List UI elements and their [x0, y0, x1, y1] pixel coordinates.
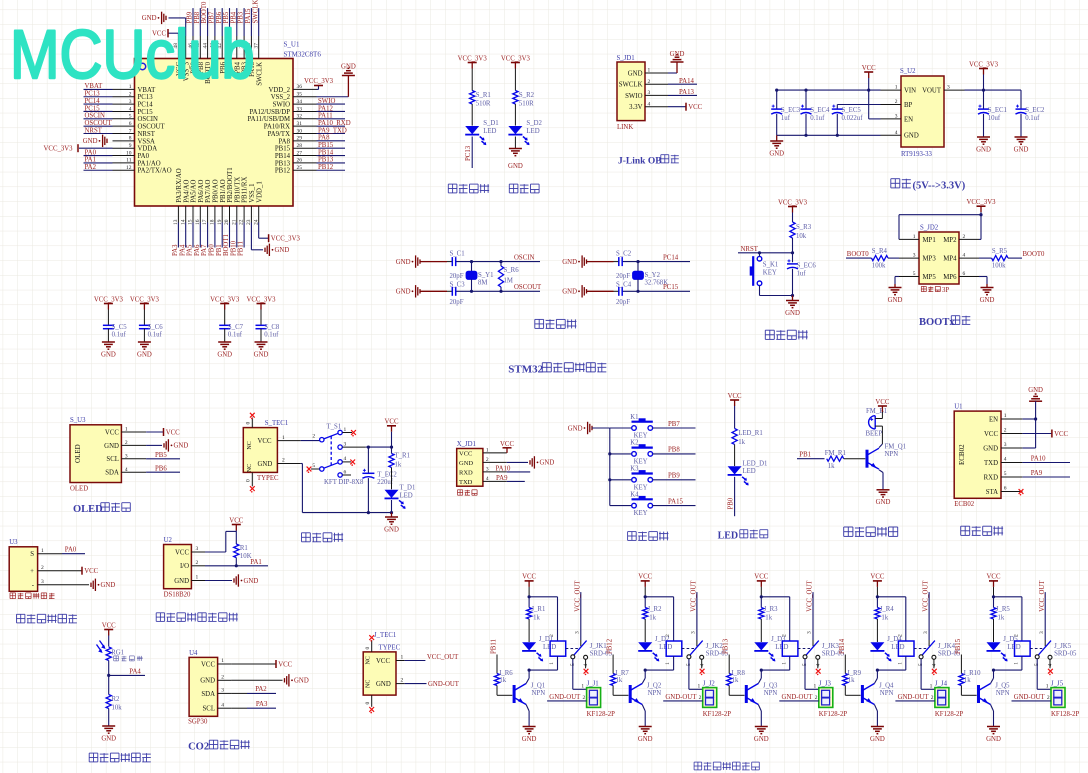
- node PA4: [109, 668, 145, 675]
- svg-text:GND: GND: [904, 133, 919, 140]
- svg-text:J_R3: J_R3: [764, 606, 779, 613]
- power VCC at U3 pin2: [62, 567, 99, 575]
- U1 top pin 45 PB8: [194, 8, 205, 74]
- S_JD1 pin 3 SWIO: [625, 90, 668, 100]
- svg-text:BOOT0: BOOT0: [1023, 251, 1046, 258]
- svg-text:J_J3: J_J3: [819, 681, 832, 688]
- svg-text:VCC: VCC: [728, 393, 742, 400]
- svg-text:11: 11: [126, 158, 132, 164]
- svg-text:33: 33: [297, 106, 303, 112]
- wire coil bottom J_JK5: [992, 656, 1022, 672]
- S_JD1 pin 1 GND: [628, 68, 668, 78]
- svg-text:VDDA: VDDA: [138, 146, 158, 153]
- wire VCC node to coil J_JK5: [992, 595, 1022, 641]
- svg-text:20pF: 20pF: [450, 299, 464, 306]
- svg-text:1: 1: [697, 683, 700, 689]
- U1 right pin 25 PB12: [275, 164, 345, 175]
- svg-text:4: 4: [699, 664, 705, 667]
- ground J_Q2: [638, 727, 653, 743]
- svg-text:GND: GND: [754, 736, 769, 743]
- power VCC_3V3 at U1 pin36 VDD_2: [304, 78, 334, 90]
- svg-text:1k: 1k: [964, 677, 971, 684]
- svg-text:J_JK1: J_JK1: [590, 643, 607, 650]
- svg-text:KEY: KEY: [763, 269, 777, 276]
- wire emitter to ground: [879, 470, 883, 490]
- svg-text:PC14: PC14: [663, 255, 679, 262]
- svg-text:PB5: PB5: [155, 452, 167, 459]
- wire bottom rail PC15: [587, 290, 691, 293]
- svg-text:PB0/AO: PB0/AO: [213, 179, 220, 203]
- power VCC at S_JD1 pin4: [668, 103, 703, 111]
- wire J_R2 to J_D2: [644, 619, 646, 642]
- svg-text:2: 2: [931, 695, 934, 701]
- svg-text:PA9: PA9: [496, 475, 508, 482]
- title J-Link OB interface: [618, 155, 679, 167]
- svg-text:1k: 1k: [533, 615, 540, 622]
- svg-text:1k: 1k: [395, 461, 402, 468]
- ground below S_C7: [217, 342, 232, 358]
- power VCC at U1 pin48: [152, 29, 178, 38]
- ground J_Q4: [870, 727, 885, 743]
- wire T_S1 pin6 stub: [342, 474, 351, 476]
- svg-text:VCC: VCC: [459, 450, 472, 457]
- svg-text:GND: GND: [986, 736, 1001, 743]
- LED T_D1: [385, 468, 416, 509]
- U1 bottom pin 17 PA7/AO: [201, 180, 212, 256]
- svg-text:PA4/AO: PA4/AO: [183, 180, 190, 203]
- svg-text:VCC_OUT: VCC_OUT: [574, 580, 581, 612]
- svg-text:0.1uf: 0.1uf: [810, 115, 825, 122]
- svg-text:PC13: PC13: [138, 94, 154, 101]
- S_U2 pin BP: [881, 99, 913, 109]
- svg-text:PB0: PB0: [209, 244, 216, 256]
- power VCC relay J_JK1: [522, 574, 536, 597]
- connector S_JD1 J-Link: [617, 55, 646, 131]
- S_U3 pin 1 VCC: [105, 427, 146, 437]
- svg-text:PB10/TX: PB10/TX: [234, 177, 241, 203]
- resistor J_R1 1k: [527, 597, 546, 622]
- U1 bottom pin 14 PA4/AO: [179, 180, 190, 256]
- svg-text:PA8: PA8: [318, 135, 330, 142]
- resistor S_R2 510R: [513, 69, 535, 108]
- svg-text:VCC: VCC: [175, 549, 189, 556]
- U1 right pin 30 PA9/TX: [268, 127, 347, 138]
- svg-text:J_JK3: J_JK3: [822, 643, 840, 650]
- svg-text:3: 3: [221, 688, 224, 694]
- svg-text:X_JD1: X_JD1: [457, 441, 476, 448]
- wire relay NC contact J_JK1: [584, 659, 589, 675]
- switch S_K1 KEY: [750, 253, 779, 296]
- U1 right pin 36 VDD_2: [268, 84, 316, 94]
- wire J_R3 to J_D3: [760, 619, 762, 642]
- svg-text:510R: 510R: [476, 101, 491, 108]
- node GND-OUT J_J1: [547, 694, 587, 701]
- svg-text:U1: U1: [954, 403, 962, 410]
- svg-text:0.1uf: 0.1uf: [228, 332, 243, 339]
- MCU U1 STM32C8T6: [135, 41, 322, 207]
- X_JD1 pin 1 VCC: [459, 448, 507, 458]
- U3 pin 3 -: [32, 579, 62, 589]
- connector S_TEC1 TYPEC: [243, 420, 288, 482]
- U1 top pin 42 PB6: [216, 8, 227, 74]
- svg-text:35: 35: [297, 92, 303, 98]
- svg-text:VCC: VCC: [166, 429, 180, 436]
- wire GND rail: [777, 134, 881, 137]
- wire S_TEC1 GND down: [277, 464, 391, 515]
- U4 pin 3 SDA: [201, 688, 231, 698]
- U1 left pin 2 PC13: [84, 91, 154, 102]
- resistor S_R6 1M: [498, 260, 519, 293]
- svg-text:PA7/AO: PA7/AO: [205, 180, 212, 203]
- S_U2 pin VOUT: [922, 85, 964, 95]
- power VCC at X_JD1 pin1: [500, 441, 514, 453]
- svg-text:VCC: VCC: [229, 517, 243, 524]
- svg-text:PA9: PA9: [1031, 470, 1043, 477]
- svg-text:J_R10: J_R10: [963, 670, 981, 677]
- svg-text:PB13: PB13: [723, 638, 730, 654]
- svg-text:2: 2: [897, 634, 903, 637]
- svg-text:NPN: NPN: [885, 451, 899, 458]
- wire coil bottom J_JK3: [760, 656, 790, 672]
- svg-text:GND: GND: [562, 259, 577, 266]
- svg-text:3: 3: [1004, 442, 1007, 448]
- U1 top pin 44 BOOT0: [201, 1, 212, 84]
- module U1 ECB02: [954, 403, 1001, 508]
- power VCC DS18B20: [229, 517, 243, 544]
- svg-text:1: 1: [41, 548, 44, 554]
- svg-text:NRST: NRST: [741, 246, 759, 253]
- svg-text:VCC: VCC: [201, 661, 215, 668]
- svg-text:GND: GND: [540, 460, 555, 467]
- ground J_Q5: [986, 727, 1001, 743]
- svg-text:10k: 10k: [112, 705, 123, 712]
- resistor FM_R1 1k: [825, 450, 866, 470]
- svg-text:10uf: 10uf: [988, 115, 1001, 122]
- U2 pin 1 GND: [174, 575, 205, 585]
- S_JD2 pins MP5 MP6: [899, 271, 979, 281]
- wire T_D1 to ground rail: [390, 500, 393, 514]
- svg-text:PB11/RX: PB11/RX: [242, 177, 249, 203]
- svg-text:29: 29: [297, 136, 303, 142]
- svg-text:10k: 10k: [796, 233, 807, 240]
- svg-text:100k: 100k: [992, 262, 1006, 269]
- capacitor S_C2 20pF: [616, 250, 632, 279]
- svg-text:1uf: 1uf: [781, 115, 791, 122]
- ground at U1 pin35 VSS_2: [317, 63, 356, 96]
- U1 top pin 47 VSS_3: [181, 36, 191, 81]
- wire T_S1 pin4 stub: [342, 460, 355, 466]
- svg-text:VCC_3V3: VCC_3V3: [130, 296, 160, 303]
- svg-text:8M: 8M: [478, 280, 487, 287]
- resistor S_R1 510R: [470, 69, 491, 108]
- svg-text:PB2/BOOT1: PB2/BOOT1: [227, 167, 234, 203]
- svg-text:MP1: MP1: [923, 237, 936, 244]
- svg-text:KF128-2P: KF128-2P: [935, 711, 964, 718]
- wire key rail: [608, 428, 611, 506]
- svg-text:PA0: PA0: [138, 153, 150, 160]
- wire T_S1 pin5 stub: [307, 467, 320, 473]
- svg-text:26: 26: [297, 158, 303, 164]
- node GND-OUT J_J4: [895, 694, 935, 701]
- U1 top pin 43 PB7: [209, 8, 220, 74]
- svg-text:OLED: OLED: [73, 504, 103, 515]
- svg-text:RXD: RXD: [459, 469, 473, 476]
- svg-text:1k: 1k: [732, 677, 739, 684]
- svg-text:S_U1: S_U1: [284, 41, 300, 49]
- U1 bottom pin 20 PB2/BOOT1: [223, 167, 234, 256]
- svg-text:J_R8: J_R8: [731, 670, 746, 677]
- svg-text:FM_R1: FM_R1: [825, 450, 846, 457]
- wire RG1 to node PA4: [107, 661, 110, 678]
- svg-text:PA0: PA0: [85, 149, 97, 156]
- svg-text:K4: K4: [630, 491, 639, 498]
- svg-text:2: 2: [781, 634, 787, 637]
- svg-text:VOUT: VOUT: [922, 88, 942, 95]
- svg-text:GND: GND: [396, 259, 411, 266]
- U1 left pin 1 VBAT: [84, 83, 157, 94]
- svg-text:J_R5: J_R5: [996, 606, 1011, 613]
- relay coil J_JK3 SRD-05: [781, 634, 844, 665]
- wire emitter J_Q4 to ground: [874, 705, 877, 727]
- connector S_JD2 jumper 3P: [919, 225, 959, 285]
- wire emitter J_Q2 to ground: [642, 705, 645, 727]
- resistor S_R5 100k: [979, 248, 1022, 269]
- svg-text:5: 5: [1004, 471, 1007, 477]
- ground at U4 pin2: [231, 674, 308, 686]
- resistor J_R4 1k: [875, 597, 894, 622]
- svg-text:S_EC4: S_EC4: [810, 107, 830, 114]
- title light collection circuit: [89, 753, 151, 762]
- ground J_Q1: [522, 727, 537, 743]
- module S_U3 OLED: [70, 417, 121, 492]
- crystal S_Y1 8M: [466, 262, 493, 292]
- U1 pin 4 TXD: [984, 456, 1022, 467]
- U1 top pin 41 PB5: [223, 8, 234, 74]
- svg-text:S_EC2: S_EC2: [1025, 107, 1045, 114]
- svg-text:1: 1: [401, 654, 404, 660]
- svg-text:GND: GND: [174, 578, 189, 585]
- connector J_J1 KF128-2P: [587, 681, 616, 719]
- wire collector J_Q2: [642, 670, 645, 683]
- relay coil J_JK1 SRD-05: [549, 634, 612, 665]
- U1 right pin 28 PB15: [275, 142, 345, 153]
- svg-text:PA8: PA8: [279, 138, 291, 145]
- svg-text:GND: GND: [200, 678, 215, 685]
- svg-text:VCC_OUT: VCC_OUT: [691, 580, 698, 612]
- wire EN GND tie: [1022, 417, 1037, 448]
- svg-text:CO2: CO2: [188, 742, 209, 753]
- svg-text:2: 2: [1014, 634, 1020, 637]
- svg-text:J_J2: J_J2: [703, 681, 716, 688]
- wire VOUT rail: [965, 89, 1022, 92]
- capacitor S_C3 20pF: [450, 281, 466, 306]
- svg-text:GND-OUT: GND-OUT: [428, 681, 460, 688]
- wire T_S1 pin1 stub: [342, 430, 356, 436]
- wire collector J_Q5: [991, 670, 994, 683]
- resistor J_R9 1k: [843, 670, 862, 696]
- node PB7 at K1: [653, 421, 696, 428]
- wire emitter J_Q1 to ground: [526, 705, 529, 727]
- ground at S_JD2 pin6: [979, 277, 994, 304]
- svg-text:GND-OUT: GND-OUT: [549, 694, 581, 701]
- title power circuit: [302, 533, 344, 542]
- svg-text:J_R9: J_R9: [847, 670, 862, 677]
- power VCC_3V3 at S_U2 output: [969, 61, 999, 90]
- svg-text:0: 0: [365, 647, 371, 650]
- S_JD1 pin 4 3.3V: [629, 101, 668, 111]
- svg-text:PA12: PA12: [318, 105, 333, 112]
- svg-text:TYPEC: TYPEC: [379, 645, 401, 652]
- svg-text:PC15: PC15: [85, 105, 101, 112]
- wire J_R1 to J_D1: [528, 619, 530, 642]
- svg-text:VCC_3V3: VCC_3V3: [246, 296, 276, 303]
- node VCC_OUT J_JK1: [574, 580, 581, 640]
- capacitor S_C5 0.1uf: [103, 310, 127, 343]
- wire VCC node to coil J_JK3: [760, 595, 790, 641]
- ground at U3 pin3: [62, 579, 115, 591]
- svg-text:S_C2: S_C2: [616, 250, 632, 257]
- wire S_R1 to S_D1: [471, 104, 473, 126]
- connector J_TEC1 TYPEC: [363, 632, 403, 695]
- title key circuit: [628, 532, 669, 541]
- power VCC at S_U3 pin1: [146, 428, 180, 436]
- LED J_D2: [638, 636, 672, 661]
- svg-text:GND: GND: [384, 526, 399, 533]
- ground at U1 pin23 VSS_1: [251, 223, 289, 257]
- svg-text:1: 1: [897, 662, 903, 665]
- U1 left pin 8 VSSA: [113, 136, 155, 146]
- switch K1 KEY: [610, 414, 653, 440]
- svg-text:S_C4: S_C4: [616, 281, 632, 288]
- svg-text:OSCOUT: OSCOUT: [85, 120, 113, 127]
- svg-text:S_R5: S_R5: [992, 248, 1008, 255]
- svg-text:GND: GND: [769, 150, 784, 157]
- title programmable LED: [448, 184, 489, 193]
- svg-text:6: 6: [129, 121, 132, 127]
- S_U2 pin EN: [881, 114, 914, 124]
- svg-text:3: 3: [923, 631, 929, 634]
- svg-text:J_JK5: J_JK5: [1054, 643, 1072, 650]
- svg-text:PA0: PA0: [65, 547, 77, 554]
- svg-text:KEY: KEY: [634, 433, 648, 440]
- wire VCC node to coil J_JK1: [528, 595, 558, 641]
- svg-text:SWCLK: SWCLK: [619, 82, 643, 89]
- svg-text:MP3: MP3: [923, 256, 937, 263]
- svg-text:J_JK4: J_JK4: [938, 643, 956, 650]
- U1 bottom pin 16 PA6/AO: [194, 180, 205, 256]
- svg-text:VCC_OUT: VCC_OUT: [427, 654, 459, 661]
- wire pin1 to VCC_3V3: [899, 212, 983, 239]
- svg-text:GND: GND: [174, 443, 189, 450]
- X_JD1 pin 4 TXD: [459, 476, 507, 486]
- U1 left pin 7 NRST: [84, 127, 156, 138]
- svg-text:K3: K3: [630, 466, 639, 473]
- U1 pin 5 RXD: [984, 471, 1023, 482]
- svg-text:(5V-->3.3V): (5V-->3.3V): [913, 181, 966, 192]
- power VCC_3V3 reset: [778, 199, 808, 222]
- svg-text:PA13: PA13: [679, 89, 694, 96]
- relay coil J_JK2 SRD-05: [665, 634, 728, 665]
- svg-text:PA4: PA4: [179, 244, 186, 256]
- node PB5 at S_U3 pin3: [146, 452, 180, 459]
- svg-text:4: 4: [344, 456, 347, 462]
- svg-text:S_C8: S_C8: [264, 324, 280, 331]
- svg-text:U2: U2: [164, 537, 173, 544]
- svg-text:BP: BP: [904, 102, 913, 109]
- transistor FM_Q1 NPN: [867, 443, 906, 469]
- ground at X_JD1 pin2: [507, 456, 555, 468]
- title soil moisture detection: [17, 614, 77, 623]
- LED J_D1: [522, 636, 556, 661]
- ground reset: [785, 296, 800, 317]
- connector J_J4 KF128-2P: [935, 681, 964, 719]
- ground below S_C8: [254, 342, 269, 358]
- svg-text:VCC_3V3: VCC_3V3: [44, 146, 74, 153]
- wire top rail OSCIN: [420, 260, 540, 263]
- U1 right pin 34 SWIO: [273, 98, 345, 109]
- svg-text:2: 2: [221, 675, 224, 681]
- svg-text:GND: GND: [785, 310, 800, 317]
- svg-text:1: 1: [1004, 413, 1007, 419]
- title BOOTx settings: [919, 316, 970, 328]
- ground at U1 pin47 VSS_3: [142, 12, 186, 36]
- ground at S_JD1 pin1: [668, 51, 684, 73]
- svg-text:KF128-2P: KF128-2P: [703, 711, 732, 718]
- node PA9 at X_JD1 pin4: [496, 475, 525, 482]
- svg-text:RG1: RG1: [111, 650, 124, 657]
- svg-text:20pF: 20pF: [450, 273, 464, 280]
- svg-text:VSSA: VSSA: [138, 138, 155, 145]
- svg-text:GND: GND: [459, 460, 473, 467]
- wire relay NO contact to J_J3: [805, 659, 819, 690]
- svg-text:NC: NC: [366, 656, 372, 664]
- svg-text:PA12/USB/DP: PA12/USB/DP: [249, 109, 290, 116]
- svg-text:RXD: RXD: [984, 474, 998, 481]
- svg-text:GND: GND: [217, 351, 232, 358]
- svg-text:VCC_3V3: VCC_3V3: [501, 55, 531, 62]
- ground light: [101, 726, 116, 742]
- svg-text:0: 0: [365, 702, 371, 705]
- svg-text:S_R2: S_R2: [519, 92, 535, 99]
- svg-text:0: 0: [246, 479, 252, 482]
- U1 left pin 10 PA0: [84, 149, 150, 160]
- node VCC_OUT J_JK5: [1039, 580, 1046, 640]
- svg-text:GND: GND: [341, 63, 356, 70]
- svg-text:LED: LED: [743, 468, 756, 475]
- svg-text:TYPEC: TYPEC: [257, 475, 279, 482]
- svg-text:1: 1: [196, 575, 199, 581]
- svg-text:TXD: TXD: [984, 460, 998, 467]
- node GND-OUT: [396, 681, 460, 688]
- svg-text:VDD_1: VDD_1: [256, 181, 263, 203]
- capacitor S_C6 0.1uf: [139, 310, 163, 343]
- power VCC_3V3 at U1 pin24 VDD_1: [259, 223, 301, 243]
- svg-text:VCC: VCC: [102, 622, 116, 629]
- svg-text:S_EC5: S_EC5: [842, 107, 862, 114]
- U3 pin 1 S: [30, 548, 62, 558]
- U1 left pin 12 PA2/TX/AO: [84, 164, 172, 175]
- svg-text:DS18B20: DS18B20: [164, 591, 191, 598]
- U1 right pin 27 PB14: [275, 149, 345, 160]
- svg-text:S_JD2: S_JD2: [920, 225, 939, 232]
- title bluetooth module: [961, 526, 1003, 535]
- svg-text:PA10_RXD: PA10_RXD: [318, 120, 351, 127]
- svg-text:VDD_2: VDD_2: [268, 87, 290, 94]
- wire coil bottom J_JK4: [876, 656, 906, 672]
- svg-text:NPN: NPN: [996, 690, 1010, 697]
- svg-text:STA: STA: [986, 489, 998, 496]
- node PA0 at U3 pin1: [62, 547, 85, 554]
